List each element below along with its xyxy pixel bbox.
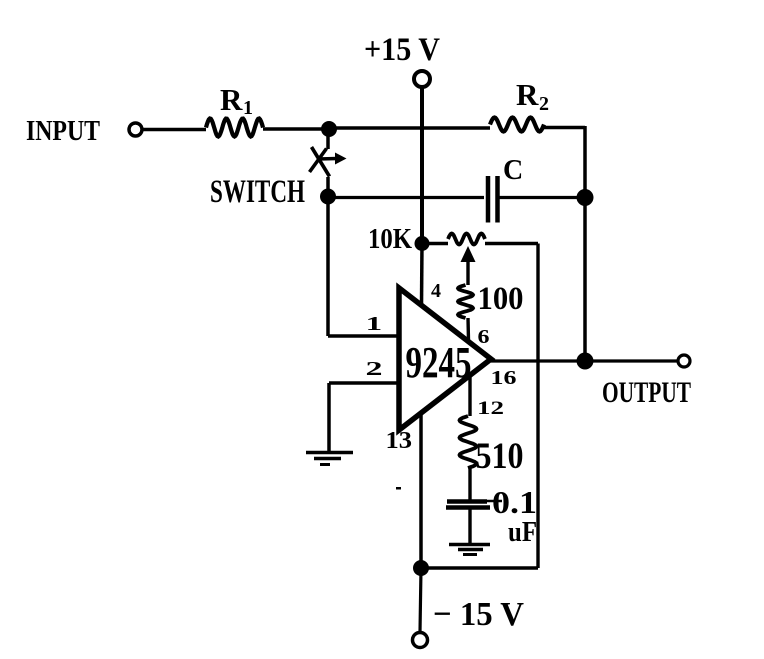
resistor R2 [490, 118, 544, 132]
wire [329, 126, 490, 130]
node E junction [415, 236, 430, 251]
wire [420, 87, 424, 244]
svg-text:12: 12 [477, 398, 504, 419]
switch SWITCH blade [312, 147, 330, 177]
wire [326, 177, 330, 197]
wire [326, 197, 330, 337]
node A junction [321, 121, 337, 137]
capacitor 0.1uF [447, 499, 487, 504]
svg-text:+15 V: +15 V [364, 32, 440, 68]
wire [143, 128, 207, 132]
svg-text:R: R [220, 82, 243, 117]
ground [449, 543, 490, 547]
potentiometer wiper arrow [466, 252, 469, 285]
switch cross stroke [310, 149, 327, 173]
svg-text:9245: 9245 [406, 338, 472, 387]
speck [396, 487, 401, 490]
svg-text:OUTPUT: OUTPUT [602, 376, 691, 409]
wire [328, 196, 484, 199]
svg-text:1: 1 [243, 97, 253, 119]
resistor R1 [206, 119, 263, 137]
wire bottom rail [421, 566, 538, 570]
capacitor C [486, 176, 491, 223]
svg-text:16: 16 [491, 367, 517, 389]
op-amp U1 9245 [399, 288, 491, 430]
wire [583, 198, 587, 361]
node C junction [577, 189, 594, 206]
wire pin4 [420, 244, 424, 307]
wire output [491, 359, 677, 362]
terminal -15V [413, 633, 428, 648]
switch arrow [318, 157, 337, 161]
resistor 100 [458, 285, 473, 318]
wire [420, 568, 421, 632]
wire pin13 [419, 413, 423, 568]
wire [583, 126, 587, 198]
svg-text:SWITCH: SWITCH [210, 174, 305, 210]
svg-text:100: 100 [478, 281, 524, 317]
svg-text:uF: uF [508, 517, 537, 548]
svg-text:1: 1 [366, 313, 383, 335]
wire [263, 127, 329, 131]
svg-text:0.1: 0.1 [492, 484, 537, 520]
resistor 510 [468, 377, 471, 416]
ground [306, 451, 353, 455]
svg-text:13: 13 [386, 428, 413, 454]
svg-text:INPUT: INPUT [26, 115, 100, 147]
wire [500, 196, 586, 199]
wire pin1 [328, 334, 399, 338]
potentiometer 10K [422, 242, 448, 245]
svg-text:4: 4 [431, 280, 441, 302]
node F junction [413, 560, 429, 576]
terminal +15V [414, 71, 430, 87]
terminal OUTPUT [678, 355, 690, 367]
wire pin2 [329, 381, 399, 385]
svg-text:2: 2 [539, 93, 549, 115]
terminal INPUT [129, 123, 142, 136]
wire [536, 244, 539, 569]
node B junction [320, 189, 336, 205]
svg-text:510: 510 [476, 436, 524, 477]
node D junction [577, 353, 594, 370]
wire switch stub [326, 131, 330, 149]
svg-text:10K: 10K [368, 223, 412, 255]
svg-text:2: 2 [366, 358, 383, 380]
wire [327, 383, 331, 452]
svg-text:C: C [503, 155, 523, 186]
svg-text:R: R [516, 77, 539, 112]
svg-text:6: 6 [478, 326, 490, 348]
wire [544, 126, 585, 130]
svg-text:− 15 V: − 15 V [433, 596, 524, 633]
